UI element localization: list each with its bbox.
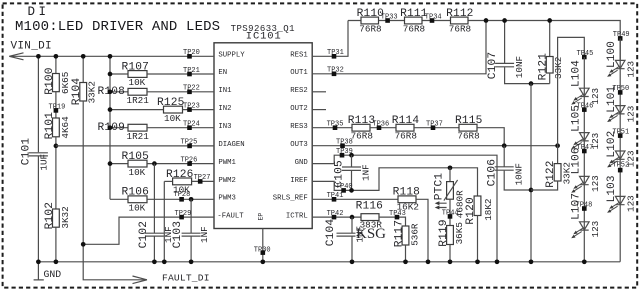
wire R100 column top — [55, 56, 57, 73]
svg-text:33K2: 33K2 — [87, 81, 98, 103]
resistor R113 — [352, 124, 370, 131]
svg-text:76R8: 76R8 — [351, 131, 373, 142]
svg-text:76R8: 76R8 — [403, 23, 425, 34]
wire EN row right to IC — [147, 73, 214, 75]
resistor R120 — [474, 196, 481, 216]
capacitor C106 — [495, 167, 514, 170]
wire C105 top drop — [351, 155, 353, 167]
wire EP pin drop to ground — [262, 229, 264, 262]
svg-text:R122: R122 — [545, 160, 557, 187]
svg-text:L106: L106 — [570, 147, 582, 174]
wire PTC1 bottom through TP44 to R119 — [449, 199, 451, 225]
node IN3 feed junction — [108, 125, 113, 130]
node OUT3 / LED chain / R122 junction — [555, 143, 560, 148]
svg-text:IREF: IREF — [290, 177, 308, 185]
resistor R112 — [451, 17, 469, 24]
wire C103 bottom to ground bus — [190, 237, 192, 262]
wire R102 bottom to ground bus — [55, 227, 57, 262]
wire RES1/OUT1 top bus — [348, 21, 620, 60]
wire VIN_DI bus with off-page arrow — [9, 53, 214, 60]
svg-text:R126: R126 — [166, 169, 193, 181]
wire R115 right drop to OUT3 row — [477, 128, 504, 146]
node C107/R121 ground-leg junction — [529, 81, 534, 86]
svg-text:OUT2: OUT2 — [290, 105, 308, 113]
wire IN1 row left — [110, 91, 128, 93]
svg-text:ICTRL: ICTRL — [286, 213, 308, 221]
node OUT1 / top bus junction — [484, 18, 489, 23]
svg-text:123: 123 — [590, 221, 601, 238]
svg-text:PTC1: PTC1 — [434, 173, 446, 201]
svg-text:L105: L105 — [570, 105, 582, 132]
wire ICTRL row — [312, 216, 361, 218]
wire R120 bottom to ground bus — [477, 216, 479, 262]
node DIAGEN divider junction — [54, 144, 59, 149]
wire R104 bottom down to -FAULT jog — [82, 101, 84, 244]
svg-text:PWM1: PWM1 — [218, 159, 236, 167]
PTC1 influence arrows — [435, 201, 447, 209]
wire R122 bottom jog to common leg — [531, 181, 558, 190]
LED L100 — [607, 60, 625, 76]
capacitor C102 — [145, 233, 164, 236]
svg-text:RES3: RES3 — [290, 123, 308, 131]
svg-text:GND: GND — [44, 269, 62, 280]
wire RES3 row left — [312, 127, 352, 129]
wire RES1 stub and riser to sense bus — [312, 21, 348, 57]
LED L101 — [607, 106, 625, 122]
resistor R126 — [173, 178, 192, 185]
capacitor C104 — [337, 233, 356, 236]
svg-text:RES1: RES1 — [290, 52, 308, 60]
wire R119 bottom to ground bus — [449, 245, 451, 262]
node C105 top junction — [349, 153, 354, 158]
wire RES3 row mid2 — [414, 127, 459, 129]
arrow FAULT_DI off-page — [133, 276, 148, 284]
wire SELS_REF row — [312, 198, 398, 200]
resistor R115 — [459, 124, 477, 131]
wire PWM1 row right to IC — [147, 163, 214, 165]
wire C105 bottom drop to IREF row — [351, 171, 353, 191]
svg-text:10K: 10K — [129, 203, 146, 214]
wire C107 bottom to R121 bottom — [505, 67, 550, 83]
svg-text:4K64: 4K64 — [60, 116, 71, 139]
wire IN1 row right to IC — [147, 91, 214, 93]
svg-text:L103: L103 — [606, 175, 618, 202]
svg-text:10K: 10K — [129, 167, 146, 178]
resistor R119 — [447, 226, 454, 245]
node R104 / -FAULT junction — [81, 242, 86, 247]
resistor R109 — [128, 124, 147, 131]
node R121 top bus junction — [547, 18, 552, 23]
svg-text:GND: GND — [295, 159, 309, 167]
svg-text:M100:LED DRIVER AND LEDS: M100:LED DRIVER AND LEDS — [15, 19, 220, 35]
node C107 top bus junction — [502, 18, 507, 23]
svg-text:C102: C102 — [138, 221, 150, 248]
wire C101 bottom to ground bus — [37, 157, 39, 262]
resistor R106 — [128, 196, 147, 203]
svg-text:C107: C107 — [487, 52, 499, 79]
svg-text:L101: L101 — [606, 86, 618, 113]
svg-text:DI: DI — [28, 5, 50, 19]
node IN2 feed junction — [108, 107, 113, 112]
resistor R121 — [546, 57, 553, 74]
svg-text:10K: 10K — [129, 77, 146, 88]
resistor R117 — [402, 226, 409, 245]
wire left LED chain — [583, 57, 585, 262]
wire common leg down to ground bus — [530, 84, 532, 262]
wire -FAULT row and jog to FAULT_DI — [83, 217, 214, 280]
svg-text:L102: L102 — [606, 131, 618, 158]
svg-text:R117: R117 — [393, 220, 405, 247]
wire PWM2 row left (R126 to ground drop) — [164, 180, 172, 182]
svg-text:R120: R120 — [465, 197, 477, 225]
node PWM1 feed junction — [108, 161, 113, 166]
svg-text:-FAULT: -FAULT — [217, 213, 244, 221]
svg-text:18K2: 18K2 — [483, 198, 494, 220]
svg-text:FAULT_DI: FAULT_DI — [162, 273, 210, 284]
svg-text:L107: L107 — [570, 193, 582, 220]
wire R104 column top — [82, 56, 84, 82]
wire IN3 row left — [110, 127, 128, 129]
wire ICTRL row right to R117 — [379, 217, 406, 226]
resistor R118 — [398, 196, 416, 203]
svg-text:R125: R125 — [157, 97, 184, 109]
svg-text:R101: R101 — [44, 112, 56, 140]
wire input feed vertical from VIN bus — [109, 56, 111, 199]
wire C104 bottom to ground bus — [351, 237, 353, 262]
LED L102 — [607, 151, 625, 167]
svg-text:IC101: IC101 — [246, 30, 282, 42]
wire C106 bottom jog to common leg — [504, 171, 531, 190]
resistor R105 — [128, 160, 147, 167]
resistor R111 — [405, 17, 423, 24]
svg-text:536R: 536R — [409, 223, 420, 246]
resistor R101 — [53, 118, 60, 137]
wire R100 to R101 through TP19 — [55, 92, 57, 118]
node VIN bus junctions — [36, 54, 41, 59]
node C106 / common leg junction — [529, 188, 534, 193]
wire IN2 row left — [110, 109, 164, 111]
wire IN3 row right to IC — [147, 127, 214, 129]
capacitor C107 — [495, 63, 514, 66]
svg-text:RES2: RES2 — [290, 87, 308, 95]
svg-text:1R21: 1R21 — [127, 95, 150, 106]
svg-text:123: 123 — [590, 175, 601, 192]
resistor R114 — [396, 124, 414, 131]
svg-text:1R21: 1R21 — [127, 131, 150, 142]
svg-text:10K: 10K — [164, 113, 181, 124]
svg-text:R102: R102 — [44, 202, 56, 229]
wire GND pin jog row — [312, 155, 497, 262]
capacitor C103 — [182, 233, 201, 236]
wire OUT2 stub — [312, 109, 326, 111]
wire R117 bottom to ground bus — [405, 245, 407, 262]
resistor R102 — [53, 209, 60, 227]
resistor R100 — [53, 74, 60, 92]
wire R101 bottom to DIAGEN node — [55, 137, 57, 209]
node EN feed junction — [108, 72, 113, 77]
svg-text:10NF: 10NF — [514, 56, 525, 78]
node PTC1 top junction — [448, 165, 453, 170]
node C104 junction — [350, 215, 355, 220]
svg-text:1UF: 1UF — [39, 154, 50, 171]
wire LED chain riser OUT3 to TP45 — [558, 37, 585, 145]
svg-text:R106: R106 — [122, 187, 149, 199]
svg-text:C106: C106 — [486, 159, 498, 186]
capacitor C101 — [29, 153, 48, 156]
wire OUT1 row and riser to top bus — [312, 21, 486, 74]
svg-text:IN1: IN1 — [218, 87, 232, 95]
svg-text:C101: C101 — [21, 138, 33, 166]
svg-text:76R8: 76R8 — [395, 131, 417, 142]
wire PTC1 top drop — [449, 168, 451, 182]
svg-text:R105: R105 — [122, 151, 149, 163]
svg-text:IN3: IN3 — [218, 123, 231, 131]
resistor R110 — [361, 17, 379, 24]
svg-text:123: 123 — [626, 106, 637, 123]
resistor R107 — [128, 71, 147, 78]
wire right LED chain — [619, 38, 621, 261]
op IC101 body box — [214, 43, 312, 229]
svg-text:SRLS_REF: SRLS_REF — [273, 195, 308, 203]
svg-text:R121: R121 — [537, 53, 549, 81]
resistor R125 — [164, 106, 183, 113]
svg-text:R104: R104 — [71, 78, 83, 106]
wire DIAGEN row — [56, 145, 214, 147]
svg-text:76R8: 76R8 — [359, 23, 381, 34]
svg-text:R111: R111 — [400, 8, 428, 20]
ground symbol GND — [34, 262, 44, 280]
svg-text:R107: R107 — [122, 61, 149, 73]
svg-text:R119: R119 — [438, 219, 450, 246]
svg-text:DIAGEN: DIAGEN — [218, 141, 244, 149]
svg-text:123: 123 — [626, 195, 637, 212]
svg-text:OUT1: OUT1 — [290, 69, 308, 77]
wire IN2 row right to IC — [183, 109, 215, 111]
svg-text:36K5: 36K5 — [454, 222, 465, 244]
svg-text:SUPPLY: SUPPLY — [218, 52, 245, 60]
wire R121 bottom — [549, 73, 551, 84]
wire R118 right drop to ground bus — [416, 199, 428, 261]
svg-text:R116: R116 — [356, 200, 383, 212]
wire EN row left — [110, 73, 128, 75]
svg-text:IN2: IN2 — [218, 105, 231, 113]
wire R122 top from OUT3 row — [557, 146, 559, 164]
capacitor C105 — [342, 167, 361, 170]
svg-text:EN: EN — [218, 69, 227, 77]
wire C103 drop from PWM3 — [190, 199, 192, 233]
node ground bus junctions right — [350, 259, 355, 264]
svg-text:6K65: 6K65 — [60, 72, 71, 94]
svg-text:C104: C104 — [325, 219, 337, 247]
wire RES2 stub — [312, 91, 326, 93]
svg-text:EP: EP — [258, 213, 265, 221]
node IN1 feed junction — [108, 89, 113, 94]
wire C104 drop from ICTRL — [351, 217, 353, 233]
svg-text:C103: C103 — [172, 221, 184, 248]
wire C101 top drop from VIN bus — [37, 56, 39, 152]
LED L104 — [571, 88, 589, 104]
resistor R122 — [554, 164, 561, 181]
svg-text:PWM3: PWM3 — [218, 195, 236, 203]
wire OUT3 row — [312, 145, 557, 147]
svg-text:OUT3: OUT3 — [290, 141, 308, 149]
node PWM3 / C103 junction — [189, 197, 194, 202]
svg-text:R112: R112 — [446, 8, 473, 20]
svg-text:PWM2: PWM2 — [218, 177, 236, 185]
svg-text:VIN_DI: VIN_DI — [11, 41, 52, 53]
svg-text:R114: R114 — [392, 115, 420, 127]
svg-text:76R8: 76R8 — [457, 131, 479, 142]
svg-text:76R8: 76R8 — [449, 23, 471, 34]
svg-text:R100: R100 — [44, 67, 56, 95]
LED L105 — [571, 133, 589, 149]
svg-text:123: 123 — [626, 61, 637, 78]
resistor R108 — [128, 88, 147, 95]
ground bus — [38, 261, 620, 263]
svg-text:10NF: 10NF — [513, 163, 524, 185]
wire R121 top drop from bus — [549, 21, 551, 57]
wire PWM1 row left — [110, 163, 128, 165]
wire PWM2 row right to IC — [192, 180, 214, 182]
node left LED chain ground junction — [582, 259, 587, 264]
wire C102 drop from PWM1 — [153, 164, 155, 233]
svg-text:3K32: 3K32 — [60, 206, 71, 228]
resistor R116 — [361, 214, 379, 221]
wire IREF pin jog row to PTC/R120 — [312, 168, 477, 196]
node ground bus junctions left — [36, 259, 41, 264]
LED L103 — [607, 196, 625, 212]
node C105 bottom junction — [349, 188, 354, 193]
svg-text:1NF: 1NF — [361, 164, 372, 181]
svg-text:L104: L104 — [570, 60, 582, 87]
svg-text:R118: R118 — [393, 187, 420, 199]
wire RES3 row mid1 — [370, 127, 396, 129]
wire R126 ground drop — [163, 181, 165, 261]
resistor R104 — [80, 83, 87, 102]
node PWM1 / C102 junction — [152, 161, 157, 166]
LED L106 — [571, 176, 589, 192]
svg-text:1NF: 1NF — [199, 226, 210, 243]
thermistor PTC1 — [447, 182, 454, 200]
svg-text:L100: L100 — [606, 41, 618, 68]
LED L107 — [571, 222, 589, 238]
svg-text:R115: R115 — [455, 115, 482, 127]
wire PWM3 row right to IC — [147, 198, 214, 200]
wire C107 top drop from bus — [504, 21, 506, 64]
wire C102 bottom to ground bus — [153, 237, 155, 262]
node OUT3 / R115 / C106 junction — [502, 143, 507, 148]
svg-text:33K2: 33K2 — [553, 57, 564, 79]
svg-text:KSG: KSG — [356, 226, 386, 242]
wire C106 top drop from OUT3 — [503, 146, 505, 167]
wire PWM3 row left — [110, 198, 128, 200]
svg-text:R113: R113 — [348, 115, 375, 127]
